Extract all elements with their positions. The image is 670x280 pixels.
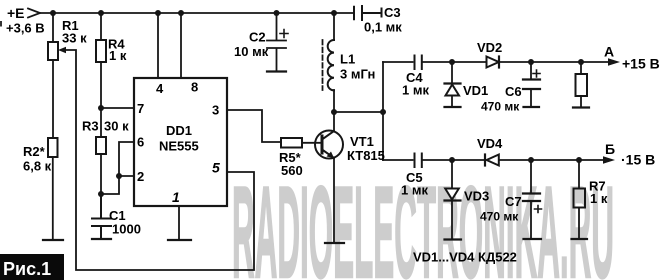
svg-text:VD2: VD2 (477, 40, 502, 55)
node rail-pin4 (155, 10, 161, 16)
wire R3 bottom lead (100, 154, 102, 194)
svg-text:33 к: 33 к (62, 31, 87, 46)
capacitor C3 (354, 6, 381, 20)
svg-text:+3,6 В: +3,6 В (6, 21, 45, 36)
svg-text:1 к: 1 к (590, 191, 608, 206)
svg-text:+E: +E (7, 5, 25, 21)
diode VD1 (445, 62, 461, 107)
svg-text:2: 2 (137, 169, 144, 184)
node C7 top (528, 157, 534, 163)
ground C7 (524, 238, 542, 240)
resistor R6 (576, 62, 588, 108)
plus C7 (535, 206, 542, 213)
svg-text:8: 8 (191, 80, 198, 95)
svg-text:3 мГн: 3 мГн (340, 67, 375, 82)
svg-text:DD1: DD1 (166, 123, 192, 138)
wire VD4 to B arrow (499, 159, 604, 161)
svg-text:30 к: 30 к (104, 119, 129, 134)
resistor R1 (48, 42, 58, 60)
svg-text:4: 4 (156, 81, 164, 96)
svg-text:R3: R3 (82, 119, 99, 134)
svg-text:6,8 к: 6,8 к (23, 159, 52, 174)
svg-text:C7: C7 (505, 194, 522, 209)
svg-text:1 к: 1 к (109, 48, 127, 63)
svg-text:VD3: VD3 (464, 189, 489, 204)
ground R2 (43, 239, 63, 241)
resistor R4 (96, 40, 106, 62)
inductor L1 core (322, 40, 324, 90)
node R3-C1 (98, 191, 104, 197)
diode VD2 (487, 57, 500, 68)
wiper arrowhead (58, 47, 66, 53)
wire pin 3 to R5 (227, 110, 281, 142)
wire pin 2 (119, 175, 134, 177)
svg-text:VD1: VD1 (463, 83, 488, 98)
ground C1 (92, 238, 111, 240)
svg-text:Б: Б (605, 141, 615, 157)
diode VD4 (485, 155, 499, 166)
transistor VT1 (315, 131, 343, 159)
wire R4 top lead (100, 13, 102, 40)
svg-text:C3: C3 (384, 5, 401, 20)
wire R4 to pin7 junction (100, 62, 102, 108)
svg-text:VT1: VT1 (350, 134, 374, 149)
svg-text:КТ815: КТ815 (347, 148, 385, 163)
node C6 top (528, 59, 534, 65)
ground R7 (572, 238, 588, 240)
wire pin 8 (180, 13, 182, 78)
node VD3 top (449, 157, 455, 163)
wire R1 wiper arm (64, 50, 254, 270)
svg-text:VD4: VD4 (477, 136, 503, 151)
wire emitter to ground (333, 158, 335, 243)
capacitor C6 (523, 62, 540, 107)
wire R2 bottom lead (52, 157, 54, 240)
svg-text:470 мк: 470 мк (481, 100, 520, 114)
svg-text:Рис.1: Рис.1 (3, 259, 51, 279)
node rail-L1 (331, 10, 337, 16)
inductor L1 coil (328, 40, 334, 90)
svg-text:+15 В: +15 В (622, 56, 660, 72)
node C4C5 vertical (380, 109, 386, 115)
resistor R7 (574, 160, 586, 239)
capacitor C1 (92, 194, 111, 239)
svg-text:7: 7 (137, 101, 144, 116)
node R7 top (576, 157, 582, 163)
ground emitter (325, 242, 344, 244)
svg-text:6: 6 (137, 135, 144, 150)
op-amp DD1 box (134, 78, 227, 206)
diode VD3 (445, 160, 461, 239)
svg-text:470 мк: 470 мк (480, 210, 519, 224)
svg-text:A: A (604, 44, 614, 60)
wire L1 top lead (333, 13, 335, 40)
svg-text:0,1 мк: 0,1 мк (364, 20, 402, 35)
wire collector to C4C5 vertical (334, 111, 383, 113)
ground pin1 (168, 239, 191, 241)
wire C5 to VD4 (423, 159, 485, 161)
resistor R2 (48, 138, 58, 157)
wire R5 to base (302, 142, 322, 144)
ground VD1 (445, 106, 461, 108)
node rail-pin8 (178, 10, 184, 16)
svg-text:1 мк: 1 мк (401, 183, 428, 198)
svg-text:560: 560 (281, 163, 303, 178)
svg-text:5: 5 (212, 160, 220, 176)
ground VD3 (445, 238, 462, 240)
wire pin 1 (178, 206, 180, 240)
node pin7 junction (98, 105, 104, 111)
svg-text:L1: L1 (340, 52, 355, 67)
wire R3C1 to pin2 vertical (101, 142, 134, 194)
resistor R5 (281, 138, 302, 148)
node rail-R4 (98, 10, 104, 16)
wire top supply rail (40, 12, 354, 14)
emitter arrowhead VT1 (327, 152, 335, 159)
resistor R3 (96, 137, 106, 154)
node pin2 (116, 173, 122, 179)
svg-text:10 мк: 10 мк (234, 44, 269, 59)
figure label box (0, 254, 64, 280)
wire R1 top lead (52, 13, 54, 42)
wire C4C5 vertical (382, 62, 384, 160)
wire VD2 to A arrow (499, 61, 609, 63)
capacitor C4 (415, 56, 422, 70)
plus C6 (533, 70, 540, 77)
svg-text:C6: C6 (505, 84, 522, 99)
plus C2 (280, 30, 288, 38)
connector +E (28, 9, 40, 18)
capacitor C2 (267, 13, 286, 71)
wire pin 4 (157, 13, 159, 78)
capacitor C5 (415, 154, 422, 168)
svg-text:·15 В: ·15 В (621, 152, 655, 168)
svg-text:NE555: NE555 (159, 139, 199, 154)
svg-text:1: 1 (172, 189, 180, 205)
wire R1 to R2 (52, 60, 54, 138)
edge artifact mark (0, 21, 2, 27)
arrowhead output B (603, 156, 615, 164)
wire pin 7 (101, 107, 134, 109)
wire R3 top lead (100, 108, 102, 137)
svg-text:VD1...VD4 КД522: VD1...VD4 КД522 (413, 250, 517, 265)
ground C6 (524, 106, 540, 108)
wire C4 to VD2 (423, 61, 487, 63)
svg-text:1000: 1000 (112, 222, 141, 237)
terminal C3 output (381, 9, 383, 17)
node collector (331, 109, 337, 115)
wire top branch to C4 (383, 61, 413, 63)
wire collector up into VT1 (333, 112, 335, 131)
wire L1 to collector node (333, 90, 335, 112)
svg-text:1 мк: 1 мк (402, 83, 429, 98)
ground C2 (267, 70, 286, 72)
node VD1 top (449, 59, 455, 65)
arrowhead output A (608, 58, 620, 66)
node rail-C2 (274, 10, 280, 16)
svg-text:C2: C2 (249, 30, 266, 45)
ground R6 (573, 106, 589, 108)
capacitor C7 (523, 160, 540, 239)
node rail-R1 (50, 10, 56, 16)
node R6 top (578, 59, 584, 65)
wire bottom branch to C5 (383, 159, 413, 161)
svg-text:3: 3 (212, 103, 219, 118)
svg-text:R2*: R2* (23, 144, 46, 159)
